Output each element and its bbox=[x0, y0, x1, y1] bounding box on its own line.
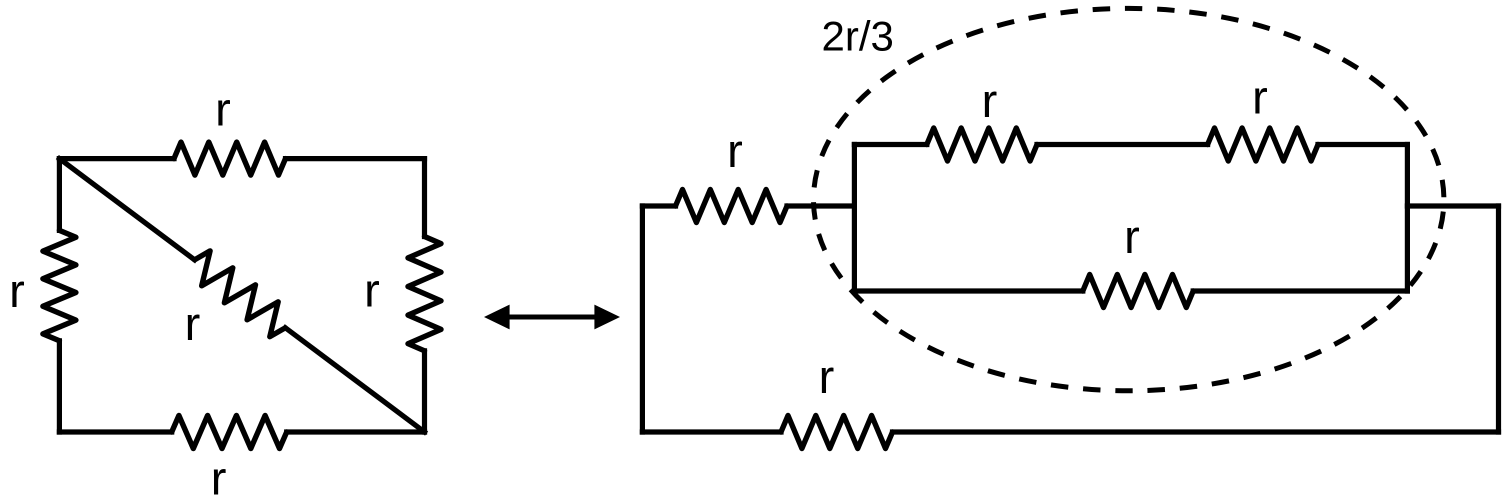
svg-text:r: r bbox=[9, 264, 25, 317]
svg-text:r: r bbox=[215, 83, 231, 136]
svg-text:r: r bbox=[364, 263, 380, 316]
svg-text:r: r bbox=[1124, 210, 1140, 263]
svg-text:r: r bbox=[185, 297, 201, 350]
svg-text:r: r bbox=[211, 452, 227, 500]
svg-text:r: r bbox=[819, 350, 835, 403]
svg-text:r: r bbox=[727, 124, 743, 177]
svg-text:r: r bbox=[1252, 71, 1268, 124]
svg-text:2r/3: 2r/3 bbox=[822, 13, 894, 60]
svg-text:r: r bbox=[982, 74, 998, 127]
